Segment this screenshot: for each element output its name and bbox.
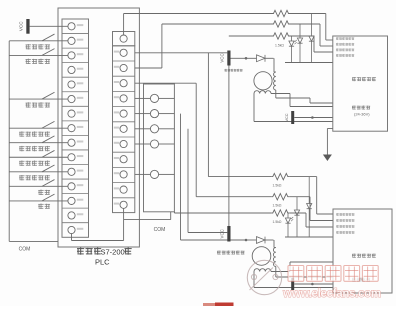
VCC supply bar (driver 2) [227, 226, 230, 242]
output terminal Q1.2 [114, 201, 127, 208]
input terminal I0.3 [68, 66, 83, 73]
wire: R6 to driver 2 pin 3 [289, 212, 306, 214]
wire: phase B right lead to driver [271, 93, 290, 95]
svg-text:COM: COM [19, 247, 31, 253]
svg-text:1.5kΩ: 1.5kΩ [273, 184, 282, 188]
svg-text:VCC: VCC [285, 113, 289, 121]
wire: VCC link to R3 row [229, 35, 272, 37]
output terminal Q0.6 [114, 140, 127, 147]
input terminal I1.6 [68, 226, 83, 233]
diode D3 [311, 14, 313, 37]
board terminal 3 [150, 125, 158, 133]
wire: M2 phase B right lead to driver [271, 271, 290, 273]
stepper driver U1 box [333, 36, 388, 131]
intermediate terminal board [144, 84, 175, 212]
wire: M2 phase A to driver [275, 267, 277, 278]
output terminal Q0.0 [114, 49, 127, 56]
VCC power bar (driver 2 supply) [291, 278, 294, 290]
U1 pin labels [336, 37, 354, 57]
diode D8 (series, motor common) [246, 239, 257, 241]
PLC caption 西门子S7-200型 PLC [77, 248, 132, 267]
U2 pin labels [336, 213, 354, 234]
wire: power to driver 2 supply pin [294, 283, 312, 285]
output terminal Q1.0 [114, 171, 127, 178]
wire: last input terminal to COM [71, 234, 73, 241]
svg-text:VCC: VCC [220, 53, 225, 62]
label 手摇反限位 [19, 146, 50, 151]
label 横轴步进电机 [225, 69, 243, 72]
switch 开始 [9, 180, 68, 187]
motor M2 phase B winding [254, 269, 271, 272]
wire: R2 to driver pin 2 [290, 23, 320, 25]
wire: board terminal 3 down to VCC bar 2 [187, 129, 189, 233]
U2 label 步进驱动器 [352, 254, 376, 258]
resistor R1 1.5k [272, 10, 290, 16]
VCC supply bar (driver 1) [227, 51, 230, 66]
red scan mark [203, 303, 215, 306]
input terminal I0.5 [68, 95, 83, 102]
switch 手摇反限位 [9, 136, 68, 143]
wire: output Q0.5 to board terminal 2 [135, 113, 151, 115]
input terminal I0.6 [68, 110, 83, 117]
svg-text:(24-36V): (24-36V) [354, 112, 370, 117]
wire: M2 phase B left lead to driver [253, 272, 255, 288]
input terminal I0.7 [68, 125, 83, 132]
svg-text:1.5kΩ: 1.5kΩ [275, 44, 284, 48]
watermark logo circle [247, 260, 281, 294]
switch 机座正限位 [9, 150, 68, 157]
LED D5 [287, 213, 289, 218]
diode D6 [296, 197, 298, 210]
ground (driver 1) [327, 128, 332, 130]
board terminal 5 [150, 170, 158, 178]
switch 横轴归零 [9, 34, 68, 41]
board terminal 2 [150, 110, 158, 118]
svg-text:COM: COM [154, 227, 166, 233]
svg-text:www.elecfans.com: www.elecfans.com [282, 288, 381, 300]
wire: VCC bars link [228, 66, 230, 227]
diode D7 [308, 177, 310, 204]
label 机座反限位 [19, 175, 50, 180]
diode D4 (series, motor common) [246, 57, 257, 59]
board terminal 1 [150, 94, 158, 102]
switch 码盘脉冲 [9, 92, 68, 99]
switch 停止 [9, 194, 68, 201]
wire: board terminal 1 to R6 [173, 97, 175, 99]
motor M2 phase A winding [273, 240, 275, 248]
input common bus (left) [8, 41, 10, 242]
watermark 电子发烧友 [288, 266, 378, 282]
motor M1 phase B winding [254, 91, 271, 94]
wire: phase B left lead to driver [253, 94, 255, 122]
switch 手摇正限位 [9, 121, 68, 128]
wire: R1 to driver pin 1 [290, 13, 326, 15]
input terminal I1.2 [68, 168, 83, 175]
label 横轴归零 [26, 44, 51, 49]
label 竖轴步进电机 [217, 251, 245, 255]
U1 label 步进驱动器 [352, 77, 376, 81]
switch 机座反限位 [9, 165, 68, 172]
wire: R4 to driver 2 pin 1 [289, 176, 316, 178]
VCC rail (top-left) [26, 19, 29, 34]
input terminal I0.4 [68, 81, 83, 88]
resistor R2 1.5k [272, 21, 290, 27]
board terminal 4 [150, 140, 158, 148]
PLC output terminal top cell (1L) [113, 32, 135, 46]
input terminal I0.2 [68, 52, 83, 59]
U2 label 电源输入 (24-36V) [352, 278, 370, 282]
node J2 [231, 239, 247, 241]
output terminal Q0.2 [114, 80, 127, 87]
label 机座正限位 [19, 160, 50, 165]
wire: tap down to lower channel R1 [207, 53, 209, 177]
input terminal I1.3 [68, 183, 83, 190]
wire: VCC to input I0.0 [30, 25, 68, 27]
wire: output Q0.6 to board terminal 3 [135, 128, 151, 130]
resistor R4 1.5k [271, 173, 289, 179]
label 码盘脉冲 [26, 102, 51, 107]
label 停止 [38, 204, 50, 209]
svg-text:1.5kΩ: 1.5kΩ [273, 220, 282, 224]
label 竖轴归零 [26, 59, 51, 64]
switch 竖轴归零 [9, 49, 68, 56]
wire: output Q0.7 to board terminal 4 [135, 143, 151, 145]
svg-text:VCC: VCC [19, 21, 24, 31]
svg-text:VCC: VCC [220, 229, 225, 238]
common rail to driver pin 4 [285, 62, 333, 64]
svg-text:PLC: PLC [95, 258, 110, 267]
input terminal I0.0 [68, 23, 83, 30]
input terminal I1.0 [68, 139, 83, 146]
wire: Q0.3 down to R5 [135, 82, 196, 84]
resistor R6 1.5k [271, 210, 289, 216]
wire: Q0.1 to VCC tap [135, 52, 228, 54]
stepper driver U2 box [333, 209, 392, 293]
resistor R5 1.5k [271, 194, 289, 200]
label 手摇正限位 [19, 131, 50, 136]
wire: output Q1.0 to board terminal 5 [135, 173, 151, 175]
output terminal Q0.5 [114, 125, 127, 132]
U1 label 电源输入 (24-36V) [352, 106, 370, 117]
wire: power to driver supply pin [294, 117, 312, 119]
stepper motor M2 rotor [252, 247, 271, 266]
wire: R5 to driver 2 pin 2 [289, 196, 310, 198]
stepper motor M1 rotor [254, 72, 272, 90]
output terminal Q0.4 [114, 110, 127, 117]
wire: output Q0.4 to board terminal 1 [135, 97, 151, 99]
PLC output terminal strip [113, 46, 135, 213]
common rail to driver 2 pin 4 [285, 236, 333, 238]
output terminal Q0.1 [114, 64, 127, 71]
input terminal I0.1 [68, 37, 83, 44]
input terminal I1.1 [68, 154, 83, 161]
output terminal Q0.7 [114, 156, 127, 163]
resistor R3 1.5k [272, 33, 290, 39]
input terminal I1.5 [68, 212, 83, 219]
PLC input terminal strip [62, 19, 89, 237]
label 开始 [38, 190, 50, 195]
motor M1 phase A winding [273, 58, 275, 72]
wire: Q0.2 riser (direction line) [135, 67, 162, 69]
VCC power bar (driver 1 supply) [291, 111, 294, 124]
wire: last output terminal to COM node [123, 208, 125, 240]
output terminal Q1.1 [114, 186, 127, 193]
input terminal I1.4 [68, 197, 83, 204]
output terminal Q0.3 [114, 95, 127, 102]
node J1 [231, 57, 247, 59]
wire: tap to R4 row [208, 176, 271, 178]
PLC outer box [58, 8, 139, 247]
diode D2 [299, 24, 301, 38]
svg-text:S7-200: S7-200 [101, 248, 125, 257]
wire: board terminal 2 down to motor line [180, 114, 182, 240]
wire: R3 to driver pin 3 [290, 35, 314, 37]
LED D1 (opto indicator) [291, 36, 293, 41]
wire: Q0.0 up and right (pulse line 1) [123, 14, 125, 36]
wire: phase A to driver [275, 90, 277, 98]
svg-text:1.5kΩ: 1.5kΩ [273, 204, 282, 208]
